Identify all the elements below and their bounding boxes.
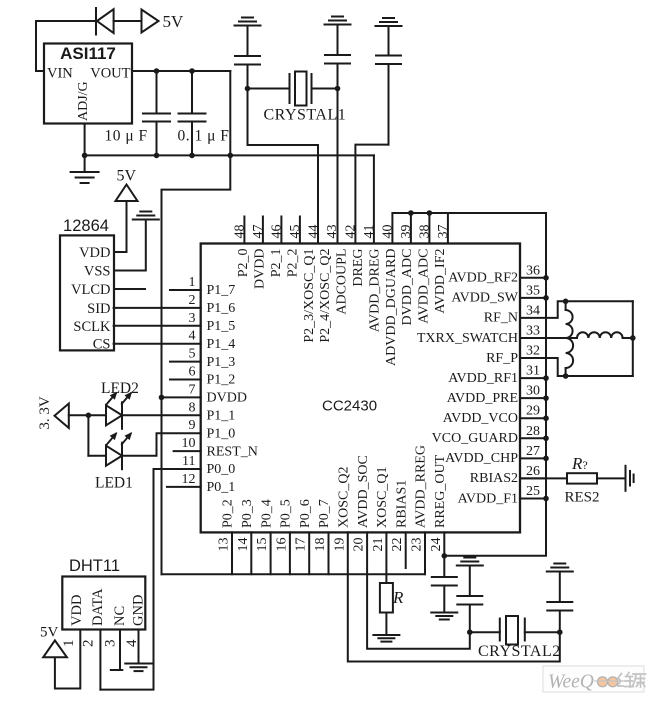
label LED1 (95, 475, 133, 492)
pin number 42 (343, 225, 358, 239)
label CC2430 (322, 398, 377, 415)
svg-text:RBIAS1: RBIAS1 (394, 480, 409, 528)
wire pin5 stub (170, 361, 201, 363)
wire pin30 stub (520, 397, 546, 399)
svg-text:P2_0: P2_0 (236, 249, 251, 278)
label 3.3V (37, 396, 53, 430)
pin number 17 (294, 538, 309, 552)
LED D3 LED2 (106, 392, 132, 429)
pin name TXRX_SWATCH (417, 331, 518, 346)
wire pin9 LED1 (122, 433, 201, 456)
label 0.1uF (178, 128, 230, 145)
svg-text:47: 47 (251, 225, 266, 239)
svg-text:AVDD_VCO: AVDD_VCO (443, 411, 518, 426)
svg-text:XOSC_Q1: XOSC_Q1 (375, 467, 390, 528)
wire VLCD stub (114, 288, 145, 290)
svg-text:20: 20 (352, 538, 367, 552)
node pin7-rail (159, 395, 165, 401)
wire ground rail (85, 154, 374, 156)
svg-text:3: 3 (103, 640, 119, 648)
pin number 22 (390, 538, 405, 552)
svg-text:P2_3/XOSC_Q1: P2_3/XOSC_Q1 (302, 249, 317, 343)
pin name P1_0 (207, 426, 236, 441)
pin number 28 (526, 424, 540, 439)
node balun top (563, 299, 569, 305)
wire pin36 stub (520, 277, 546, 279)
svg-text:VOUT: VOUT (90, 66, 130, 82)
wire pin31 stub (520, 377, 546, 379)
pin number 20 (352, 538, 367, 552)
power flag 5V lcd (116, 185, 138, 202)
svg-text:12: 12 (182, 472, 196, 487)
svg-text:TXRX_SWATCH: TXRX_SWATCH (417, 331, 518, 346)
svg-text:15: 15 (255, 538, 270, 552)
svg-text:DVDD: DVDD (253, 249, 268, 289)
pin number 45 (288, 225, 303, 239)
svg-text:36: 36 (526, 263, 540, 278)
pin number 10 (182, 436, 196, 451)
svg-text:ADCOUPL: ADCOUPL (335, 249, 350, 315)
svg-text:AVDD_ADC: AVDD_ADC (417, 249, 432, 324)
node XT1 left (245, 86, 251, 92)
IC U4 DHT11 box (62, 577, 145, 630)
wire VOUT rail (132, 70, 230, 72)
svg-text:P2_4/XOSC_Q2: P2_4/XOSC_Q2 (318, 249, 333, 343)
svg-text:RREG_OUT: RREG_OUT (433, 454, 448, 528)
inductor L2 (566, 338, 574, 376)
pin name VCO_GUARD (432, 431, 518, 446)
svg-text:P0_0: P0_0 (207, 462, 236, 477)
svg-text:16: 16 (274, 538, 289, 552)
pin VOUT label (90, 66, 130, 82)
pin name RREG_OUT (433, 454, 448, 528)
svg-text:10: 10 (182, 436, 196, 451)
pin number 35 (526, 283, 540, 298)
pin name AVDD_IF2 (433, 249, 448, 314)
label CRYSTAL1 (264, 107, 347, 124)
wire branch down (87, 415, 89, 455)
pin name P0_6 (298, 499, 313, 528)
svg-text:26: 26 (526, 464, 540, 479)
wire pin16 stub (289, 532, 291, 574)
wire balun right side (632, 301, 634, 376)
pin name AVDD_RREG (414, 445, 429, 528)
pin number 37 (436, 225, 451, 239)
pin label VDD (69, 595, 85, 626)
crystal Y2 CRYSTAL2 (500, 616, 525, 645)
wire pin39 stub (410, 213, 412, 244)
label R2 (571, 454, 588, 473)
wire pin35 stub (520, 297, 546, 299)
svg-text:P1_0: P1_0 (207, 426, 236, 441)
capacitor C4 (325, 55, 350, 89)
crystal Y1 CRYSTAL1 (290, 72, 312, 106)
pin name DVDD (207, 391, 247, 406)
wire XT1-pin43 (337, 89, 339, 244)
IC U2 CC2430 body (201, 244, 520, 533)
label 10uF (105, 128, 148, 145)
pin name AVDD_PRE (447, 391, 518, 406)
pin number 5 (189, 347, 196, 362)
pin name ADVDD_DGUARD (384, 249, 399, 366)
dht pin number 3 (103, 640, 119, 648)
wire pin8 LED2 (122, 414, 201, 416)
svg-text:33: 33 (526, 323, 540, 338)
wire ADJ pin (84, 124, 86, 156)
svg-text:12864: 12864 (63, 217, 109, 235)
pin number 41 (362, 225, 377, 239)
pin number 39 (399, 225, 414, 239)
pin name P2_1 (269, 249, 284, 278)
svg-text:28: 28 (526, 424, 540, 439)
label R1 (392, 588, 404, 607)
pin label DATA (90, 588, 106, 626)
resistor R1 (380, 583, 393, 613)
wire VIN top (36, 21, 95, 71)
svg-text:3: 3 (189, 311, 196, 326)
label ASI117 (60, 44, 116, 63)
ground flag inverted IG2 (325, 17, 351, 56)
svg-text:DVDD_ADC: DVDD_ADC (400, 249, 415, 326)
svg-text:0. 1 μ F: 0. 1 μ F (178, 128, 230, 145)
svg-text:39: 39 (399, 225, 414, 239)
svg-text:P0_1: P0_1 (207, 480, 236, 495)
svg-text:P0_2: P0_2 (221, 499, 236, 528)
svg-text:27: 27 (526, 444, 540, 459)
wire pin11 P0_0 (100, 469, 200, 690)
svg-text:WeeQ: WeeQ (548, 672, 594, 693)
regulator U1 ASI117 box (44, 44, 132, 124)
svg-text:5: 5 (189, 347, 196, 362)
svg-text:1: 1 (61, 640, 77, 648)
pin label SCLK (73, 319, 111, 335)
wire dht pin4 GND (138, 630, 140, 663)
svg-text:P0_6: P0_6 (298, 499, 313, 528)
svg-text:RBIAS2: RBIAS2 (470, 471, 518, 486)
wire VOUT branch down (162, 71, 231, 574)
pin ADJ/G label (76, 81, 91, 121)
svg-text:9: 9 (189, 418, 196, 433)
pin number 4 (189, 329, 196, 344)
resistor R2 (567, 473, 597, 483)
svg-text:P0_4: P0_4 (259, 499, 274, 528)
svg-text:CS: CS (93, 337, 111, 353)
svg-text:8: 8 (189, 400, 196, 415)
svg-text:19: 19 (332, 538, 347, 552)
label 5V top-left (163, 12, 185, 31)
pin number 2 (189, 293, 196, 308)
node rail-C2 (189, 153, 195, 159)
pin number 19 (332, 538, 347, 552)
svg-text:P0_5: P0_5 (279, 499, 294, 528)
pin label NC (112, 606, 128, 626)
wire pin28 stub (520, 437, 546, 439)
pin name P0_5 (279, 499, 294, 528)
label 5V dht (40, 625, 59, 641)
pin number 48 (232, 225, 247, 239)
svg-text:ADJ/G: ADJ/G (76, 81, 91, 121)
LED D2 LED1 (106, 432, 132, 469)
pin name P2_4/XOSC_Q2 (318, 249, 333, 343)
ground flag inverted IG6 (547, 564, 573, 572)
pin number 31 (526, 364, 540, 379)
wire pin45 stub (299, 217, 301, 244)
wire pin34 RF_N (520, 301, 633, 318)
wire pin25 stub (520, 497, 546, 499)
svg-text:11: 11 (182, 454, 195, 469)
svg-text:NC: NC (112, 606, 128, 626)
svg-text:5V: 5V (117, 168, 137, 185)
pin number 27 (526, 444, 540, 459)
pin name P1_2 (207, 373, 236, 388)
svg-text:40: 40 (380, 225, 395, 239)
pin number 36 (526, 263, 540, 278)
svg-text:AVDD_DREG: AVDD_DREG (367, 249, 382, 333)
wire R2-gnd (597, 477, 626, 479)
pin number 32 (526, 344, 540, 359)
wire pin26 RBIAS2 (520, 477, 567, 479)
node XT2 right (557, 629, 563, 635)
wire pin33 TXRX (520, 337, 577, 339)
svg-text:AVDD_IF2: AVDD_IF2 (433, 249, 448, 314)
wire pin17 stub (308, 532, 310, 574)
pin number 26 (526, 464, 540, 479)
ground GND5 (125, 664, 152, 672)
pin name P1_1 (207, 409, 236, 424)
svg-text:AVDD_RREG: AVDD_RREG (414, 445, 429, 528)
capacitor C2 0.1uF (179, 71, 206, 155)
pin number 9 (189, 418, 196, 433)
pin number 47 (251, 225, 266, 239)
wire pin15 stub (270, 532, 272, 574)
watermark box (543, 666, 644, 692)
wire pin48 stub (243, 217, 245, 244)
node pin24 (442, 553, 448, 559)
node w39 (408, 210, 414, 216)
wire pin40 up (392, 213, 546, 244)
ground GND4 (431, 613, 457, 620)
wire pin29 stub (520, 417, 546, 419)
wire pin46 stub (280, 217, 282, 244)
svg-text:VIN: VIN (47, 66, 73, 82)
pin name P0_7 (317, 499, 332, 528)
pin name P0_2 (221, 499, 236, 528)
pin name RBIAS2 (470, 471, 518, 486)
node bus-27 (543, 456, 549, 462)
capacitor C1 10uF (143, 71, 170, 155)
svg-text:P1_1: P1_1 (207, 409, 236, 424)
pin name P2_2 (285, 249, 300, 278)
node XT2 left (467, 629, 473, 635)
svg-text:SID: SID (87, 301, 110, 317)
svg-text:5V: 5V (40, 625, 59, 641)
wire pin21 stub (385, 532, 387, 583)
svg-text:AVDD_PRE: AVDD_PRE (447, 391, 518, 406)
svg-text:DATA: DATA (90, 588, 106, 626)
svg-text:SCLK: SCLK (73, 319, 111, 335)
svg-text:RF_N: RF_N (484, 311, 518, 326)
svg-text:6: 6 (189, 365, 196, 380)
svg-text:42: 42 (343, 225, 358, 239)
ground flag inverted IG1 (235, 18, 261, 57)
svg-text:VDD: VDD (69, 595, 85, 626)
dht pin number 4 (124, 639, 140, 647)
pin number 21 (371, 538, 386, 552)
pin name P2_3/XOSC_Q1 (302, 249, 317, 343)
wire pin10 stub (174, 450, 201, 452)
svg-text:14: 14 (236, 538, 251, 552)
pin number 29 (526, 404, 540, 419)
pin number 24 (429, 538, 444, 552)
svg-text:2: 2 (189, 293, 196, 308)
node VOUT-C1 (154, 68, 160, 74)
svg-text:CC2430: CC2430 (322, 398, 377, 415)
pin name P0_4 (259, 499, 274, 528)
pin name P1_4 (207, 337, 236, 352)
pin number 11 (182, 454, 195, 469)
pin number 16 (274, 538, 289, 552)
node bus-29 (543, 415, 549, 421)
svg-text:23: 23 (410, 538, 425, 552)
pin number 25 (526, 484, 540, 499)
svg-text:P1_4: P1_4 (207, 337, 236, 352)
capacitor C3 (235, 56, 260, 89)
pin name RF_P (486, 351, 518, 366)
pin name AVDD_CHP (445, 451, 518, 466)
svg-text:RES2: RES2 (565, 490, 600, 506)
wire XT1-pin44 (248, 89, 319, 244)
wire pin47 stub (262, 217, 264, 244)
pin name AVDD_RF2 (448, 271, 518, 286)
svg-text:DHT11: DHT11 (69, 557, 120, 575)
svg-text:4: 4 (124, 639, 140, 647)
svg-text:48: 48 (232, 225, 247, 239)
svg-text:VSS: VSS (84, 264, 111, 280)
svg-text:AVDD_SW: AVDD_SW (451, 291, 518, 306)
pin name P0_0 (207, 462, 236, 477)
wire pin32 RF_P (520, 358, 633, 376)
label LED2 (101, 380, 139, 397)
svg-text:45: 45 (288, 225, 303, 239)
wire pin14 stub (250, 532, 252, 574)
wire pin27 stub (520, 457, 546, 459)
node led branch (86, 413, 92, 419)
svg-text:P2_1: P2_1 (269, 249, 284, 278)
node XT1 right (335, 86, 341, 92)
svg-text:DVDD: DVDD (207, 391, 247, 406)
svg-text:AVDD_CHP: AVDD_CHP (445, 451, 518, 466)
svg-text:RF_P: RF_P (486, 351, 518, 366)
svg-text:CRYSTAL1: CRYSTAL1 (264, 107, 347, 124)
node rail-branch (228, 153, 234, 159)
pin number 34 (526, 303, 540, 318)
node balun right (630, 335, 636, 341)
wire VSS-gnd (114, 220, 146, 271)
svg-text:AVDD_RF1: AVDD_RF1 (448, 371, 518, 386)
capacitor C5 (376, 56, 401, 145)
label DHT11 (69, 557, 120, 575)
pin number 13 (217, 538, 232, 552)
wire pin37 stub (447, 213, 449, 244)
wire rail-pin41 (373, 155, 375, 243)
svg-text:21: 21 (371, 538, 386, 552)
svg-text:VLCD: VLCD (71, 282, 110, 298)
pin label VLCD (71, 282, 110, 298)
wire pin20 AVDD_SOC (367, 532, 470, 648)
pin number 44 (306, 225, 321, 239)
pin name REST_N (207, 444, 258, 459)
pin name AVDD_F1 (458, 491, 518, 506)
pin number 33 (526, 323, 540, 338)
svg-text:LED2: LED2 (101, 380, 139, 397)
wire R1-gnd (385, 613, 387, 636)
svg-text:AVDD_RF2: AVDD_RF2 (448, 271, 518, 286)
wire XT1 right (312, 88, 338, 90)
svg-text:37: 37 (436, 225, 451, 239)
svg-text:P2_2: P2_2 (285, 249, 300, 278)
wire pin13 stub (231, 532, 233, 574)
wire pin23 stub (424, 532, 426, 574)
svg-text:R: R (392, 588, 404, 607)
ground flag inverted IG4 (133, 212, 159, 220)
pin name P2_0 (236, 249, 251, 278)
wire VIN stub (36, 70, 44, 72)
svg-text:XOSC_Q2: XOSC_Q2 (337, 467, 352, 528)
ground GND1 (71, 155, 99, 183)
svg-text:18: 18 (313, 538, 328, 552)
pin name P1_3 (207, 355, 236, 370)
wire pin22 stub (405, 532, 407, 568)
pin name P0_3 (240, 499, 255, 528)
svg-text:P0_3: P0_3 (240, 499, 255, 528)
pin number 1 (189, 275, 196, 290)
svg-text:25: 25 (526, 484, 540, 499)
svg-text:2: 2 (81, 640, 97, 648)
wire pin4 CS (114, 343, 201, 345)
wire pin12 stub (167, 486, 201, 488)
pin name DVDD_ADC (400, 249, 415, 326)
pin name P1_5 (207, 319, 236, 334)
pin number 8 (189, 400, 196, 415)
label RES2 (565, 490, 600, 506)
inductor L1 (566, 301, 573, 338)
wire dht pin3 NC (111, 630, 123, 670)
svg-text:5V: 5V (163, 12, 185, 31)
pin label CS (93, 337, 111, 353)
label 5V lcd (117, 168, 137, 185)
label CRYSTAL2 (478, 643, 561, 660)
pin number 3 (189, 311, 196, 326)
wire VDD-5V (114, 201, 127, 252)
pin name XOSC_Q1 (375, 467, 390, 528)
wire AVDD bus (444, 213, 546, 556)
wire to LED1 (88, 455, 106, 457)
svg-text:4: 4 (189, 329, 196, 344)
svg-text:31: 31 (526, 364, 540, 379)
label 12864 (63, 217, 109, 235)
pin label SID (87, 301, 110, 317)
node VOUT-C2 (189, 68, 195, 74)
svg-text:P0_7: P0_7 (317, 499, 332, 528)
svg-text:35: 35 (526, 283, 540, 298)
svg-text:38: 38 (417, 225, 432, 239)
svg-text:1: 1 (189, 275, 196, 290)
svg-text:AVDD_F1: AVDD_F1 (458, 491, 518, 506)
svg-text:DREG: DREG (351, 249, 366, 287)
pin name AVDD_SOC (356, 455, 371, 528)
node rail-ADJ (82, 153, 88, 159)
wire bottom rail (162, 573, 426, 575)
